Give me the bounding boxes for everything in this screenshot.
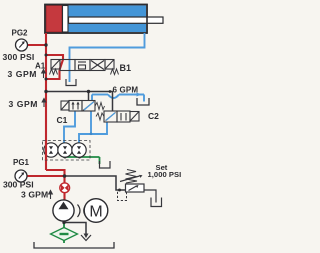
svg-text:C1: C1 xyxy=(57,115,68,125)
svg-text:300 PSI: 300 PSI xyxy=(3,180,34,190)
svg-text:3 GPM: 3 GPM xyxy=(21,190,48,200)
svg-text:3 GPM: 3 GPM xyxy=(9,99,39,109)
svg-text:300 PSI: 300 PSI xyxy=(3,52,35,62)
svg-text:1,000 PSI: 1,000 PSI xyxy=(148,170,182,179)
svg-text:M: M xyxy=(89,204,102,221)
svg-text:3 GPM: 3 GPM xyxy=(8,69,38,79)
svg-text:PG1: PG1 xyxy=(13,158,30,167)
svg-text:6 GPM: 6 GPM xyxy=(113,86,139,95)
svg-text:C2: C2 xyxy=(148,111,159,121)
svg-text:PG2: PG2 xyxy=(12,29,29,38)
svg-text:B1: B1 xyxy=(120,63,132,73)
